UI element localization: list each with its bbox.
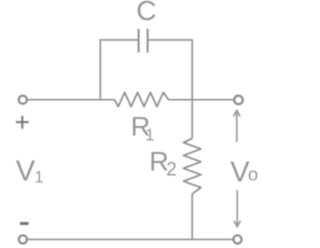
wire: top-left terminal to R1	[27, 99, 114, 101]
label Vo	[230, 157, 258, 189]
terminal bottom-right	[233, 235, 241, 243]
minus sign	[20, 222, 29, 225]
wire: capacitor branch top-right horizontal	[148, 39, 193, 41]
resistor R2	[184, 138, 201, 194]
svg-text:C: C	[136, 0, 156, 26]
plus sign	[16, 116, 29, 129]
wire: bottom rail	[27, 238, 233, 240]
terminal top-left	[19, 96, 27, 104]
label R2	[149, 147, 177, 181]
arrow Vo down	[234, 190, 241, 227]
wire: R2 bottom to bottom wire	[191, 194, 193, 240]
svg-text:V: V	[16, 156, 36, 188]
arrow Vo up	[234, 110, 241, 142]
terminal bottom-left	[19, 235, 27, 243]
svg-text:1: 1	[145, 127, 154, 145]
capacitor C	[139, 29, 148, 53]
svg-text:o: o	[248, 164, 258, 185]
wire: capacitor branch left vertical	[99, 40, 101, 100]
svg-text:2: 2	[166, 160, 177, 181]
wire: junction to R2 top	[191, 100, 193, 139]
label V1	[16, 156, 44, 188]
wire: capacitor branch right vertical	[191, 40, 193, 100]
resistor R1	[115, 92, 169, 106]
label R1	[131, 112, 155, 145]
svg-text:1: 1	[34, 168, 43, 186]
wire: capacitor branch top-left horizontal	[100, 39, 139, 41]
wire: R1 to top-right terminal	[169, 99, 234, 101]
terminal top-right	[234, 96, 243, 105]
